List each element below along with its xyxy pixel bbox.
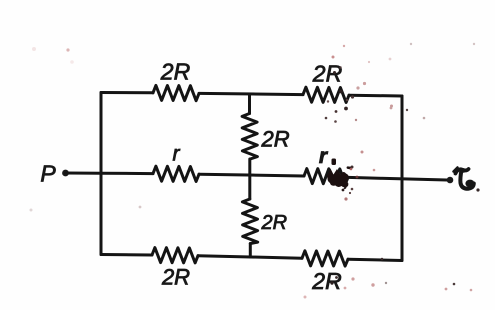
resistor 2R middle vertical lower bbox=[242, 199, 257, 244]
resistor 2R middle vertical upper bbox=[242, 114, 257, 160]
wire middle vertical bus bottom segment bbox=[249, 244, 252, 258]
resistor r middle-left bbox=[153, 166, 199, 181]
svg-text:r: r bbox=[319, 145, 329, 168]
wire bottom-middle bbox=[198, 256, 302, 259]
ink specks (scan noise) bbox=[30, 43, 480, 299]
svg-text:2R: 2R bbox=[261, 127, 290, 152]
label Q ink blot glyph bbox=[454, 168, 475, 189]
wire bottom-left bbox=[101, 253, 152, 257]
svg-text:r: r bbox=[173, 143, 181, 166]
svg-text:2R: 2R bbox=[261, 212, 288, 234]
wire top-right to corner bbox=[349, 94, 402, 98]
wire right vertical bus bbox=[401, 96, 404, 261]
wire top-middle bbox=[199, 93, 303, 94]
wire left vertical bus bbox=[100, 93, 103, 255]
svg-text:2R: 2R bbox=[311, 268, 341, 294]
wire middle vertical bus center segment bbox=[248, 159, 251, 199]
wire P to left bus bbox=[66, 172, 102, 175]
svg-text:2R: 2R bbox=[312, 61, 342, 87]
wire bottom-right to corner bbox=[348, 259, 402, 260]
resistor 2R top-left bbox=[153, 85, 199, 100]
svg-text:P: P bbox=[40, 161, 56, 187]
wire middle vertical bus upper segment bbox=[248, 94, 251, 114]
resistor r middle-right bbox=[304, 169, 348, 184]
resistor 2R bottom-right bbox=[302, 251, 348, 266]
node P terminal dot bbox=[62, 170, 69, 177]
wire top-left bbox=[101, 91, 153, 94]
wire middle-center bbox=[199, 174, 304, 176]
resistor 2R top-right bbox=[303, 87, 349, 102]
wire middle-left bbox=[101, 172, 153, 175]
resistor 2R bottom-left bbox=[152, 248, 198, 263]
smudge blob on middle-right resistor bbox=[327, 159, 352, 190]
node Q terminal dot bbox=[447, 177, 454, 184]
svg-text:2R: 2R bbox=[161, 265, 190, 290]
svg-text:2R: 2R bbox=[160, 59, 190, 85]
wire middle-right to Q bbox=[348, 177, 447, 180]
